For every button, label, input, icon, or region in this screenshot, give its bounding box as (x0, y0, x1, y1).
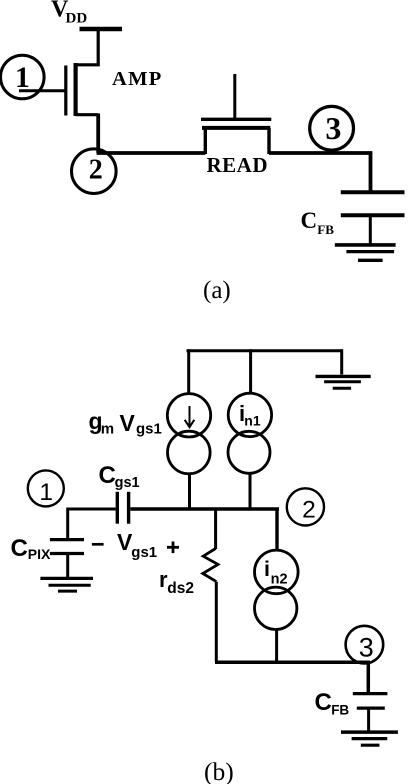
capacitor CFB (341, 192, 405, 243)
wire rail to top ground (340, 349, 343, 374)
transistor AMP (66, 63, 98, 116)
current source in1 (228, 393, 272, 473)
svg-text:DD: DD (66, 10, 88, 26)
label plus (167, 542, 179, 554)
ground top right (b) (316, 376, 371, 388)
svg-text:FB: FB (331, 702, 349, 717)
svg-text:ds2: ds2 (167, 580, 194, 597)
svg-text:FB: FB (317, 222, 334, 237)
svg-text:2: 2 (302, 496, 316, 523)
svg-text:3: 3 (359, 632, 374, 662)
wire AMP source to node 2 (97, 114, 206, 154)
node 1 (b) (28, 470, 64, 506)
svg-text:C: C (315, 689, 332, 716)
current source in2 (254, 550, 298, 629)
svg-text:C: C (301, 208, 318, 233)
label in2 (264, 557, 288, 587)
wire bottom rail (b) (215, 662, 368, 692)
label CFB (b) (315, 689, 350, 717)
label Vgs1 (117, 529, 157, 561)
wire in2 to bottom rail (275, 629, 278, 662)
svg-text:C: C (99, 462, 116, 489)
svg-text:V: V (120, 410, 136, 436)
wire node 1 to AMP gate (19, 89, 65, 92)
svg-text:gs1: gs1 (131, 544, 157, 561)
svg-text:PIX: PIX (28, 546, 51, 562)
resistor rds2 (203, 549, 218, 582)
wire READ drain to node 3 and CFB (269, 153, 371, 191)
label gm Vgs1 (89, 408, 162, 438)
wire Cgs1 to node 2 corner (130, 507, 279, 510)
wire gm source to mid rail (188, 473, 191, 510)
label in1 (239, 401, 261, 428)
wire top rail (b) (187, 349, 342, 352)
capacitor Cgs1 (117, 492, 128, 524)
svg-text:(b): (b) (204, 757, 234, 784)
svg-text:READ: READ (207, 153, 269, 177)
ground (a) (335, 245, 396, 260)
svg-text:n2: n2 (271, 572, 288, 588)
wire in1 to mid rail (249, 473, 252, 511)
wire rail to in1 (249, 349, 252, 393)
transistor READ (201, 74, 271, 154)
svg-text:C: C (11, 535, 28, 562)
current source gm Vgs1 (167, 394, 210, 474)
svg-text:n1: n1 (244, 413, 261, 429)
label Cgs1 (99, 462, 140, 491)
svg-text:i: i (264, 557, 270, 581)
wire rail to gm source (187, 349, 190, 394)
VDD power rail (80, 27, 123, 32)
wire VDD rail to AMP drain (76, 27, 98, 65)
svg-text:2: 2 (89, 155, 103, 186)
capacitor CFB (b) (353, 694, 388, 731)
wire node 1 branch Cpix to Cgs1 (68, 509, 116, 538)
label rds2 (159, 567, 194, 597)
svg-text:gs1: gs1 (136, 421, 162, 438)
node 3 (b) (346, 626, 384, 664)
wire mid rail to rds2 (214, 509, 217, 549)
ground CFB (b) (341, 732, 398, 745)
label Cpix (11, 535, 52, 562)
node 2 (b) (287, 488, 324, 525)
wire mid rail corner to in2 (275, 508, 278, 551)
node 3 (310, 106, 354, 150)
node 1 (1, 55, 45, 99)
node 2 (72, 149, 117, 194)
wire rds2 to bottom rail (215, 582, 218, 663)
label minus (92, 543, 104, 546)
capacitor Cpix (50, 540, 84, 577)
svg-text:(a): (a) (203, 277, 231, 304)
svg-text:gs1: gs1 (115, 475, 140, 491)
ground Cpix (40, 578, 93, 591)
svg-text:AMP: AMP (112, 68, 163, 90)
svg-text:m: m (101, 421, 114, 438)
svg-text:3: 3 (325, 110, 341, 146)
svg-text:1: 1 (39, 479, 53, 506)
